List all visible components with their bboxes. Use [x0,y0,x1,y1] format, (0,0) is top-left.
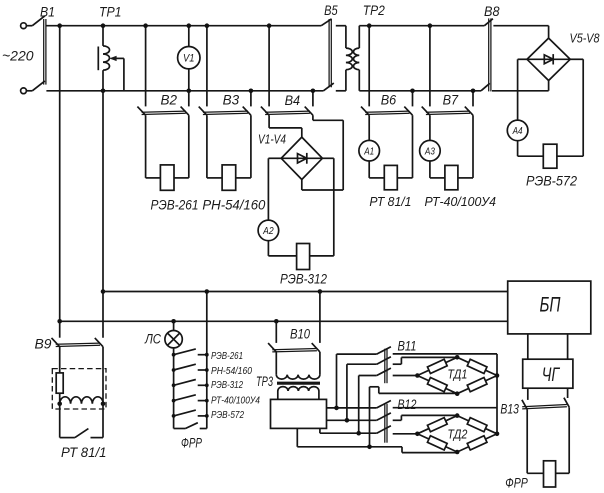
wire BP to ChG left [527,334,529,359]
lamp LS [165,331,182,348]
diode inside V1-V4 [281,157,322,159]
node RT81 coil left [57,402,62,407]
node line2 left end [57,319,62,324]
transformer TP3 core [277,382,320,384]
wire B7 left pole to A3 [429,115,431,140]
svg-text:ЛС: ЛС [144,332,161,347]
svg-text:А1: А1 [363,145,374,157]
wire A4 to coil [517,141,519,157]
switch B3 [206,26,208,107]
svg-text:А3: А3 [424,145,435,157]
wire bridge DC left to A2 [268,157,281,159]
svg-text:В7: В7 [443,93,459,108]
node B7 right lower bus [471,89,476,94]
wire line1 [103,291,508,293]
ammeter A2 [258,220,279,241]
wire lower bus left section [46,90,323,92]
node V1 top bus [187,23,192,28]
svg-text:ТР2: ТР2 [363,3,385,18]
svg-text:РТ 81/1: РТ 81/1 [369,194,411,209]
coil RT-40/100U4 (K5) [445,165,458,189]
switch B12 bar [385,404,387,443]
rectifier bridge V1-V4 [281,137,322,179]
wire w3 block to B12 feed3 [319,428,321,433]
wire FRR right rail [206,292,208,429]
dashed enclosure RT 81/1 relay [52,369,106,409]
wire coil to bridge DC right [310,255,334,257]
terminal input top [21,23,27,29]
svg-text:В6: В6 [381,93,397,108]
ammeter A4 [507,120,528,141]
wire coil to bridge DC right [557,155,583,157]
wire B8 bottom to bridge [492,90,549,92]
sensor bridge TD1 [417,357,497,393]
contact FRR-2 [174,364,196,370]
svg-text:РЭВ-572: РЭВ-572 [211,410,244,421]
switch B5 [321,19,331,26]
wire B4 right pole to bridge AC2 [312,115,314,120]
wire riser3 to B11 feed3 [358,376,360,434]
svg-text:В5: В5 [324,3,338,18]
inductor coil RT81 winding [60,397,103,404]
wire FRR left rail [173,348,175,428]
wire BP to ChG right [567,334,569,359]
switch B8 [484,19,493,26]
wire B11 fixed1 to TD right corners [393,353,497,355]
wire B10 poles to TP3 [275,352,277,375]
wire B9 right pole [102,347,104,404]
switch B11 blade2 [377,357,391,364]
node B6 left top bus [367,23,372,28]
wire A3 to coil [429,161,431,178]
ammeter A3 [420,140,441,161]
switch B1 [32,16,45,26]
svg-text:А2: А2 [262,225,273,237]
node B4 left top bus [267,23,272,28]
coil REV-261 (K1) [160,165,174,190]
svg-text:А4: А4 [512,125,523,137]
wire B12 fixed3 to TD2 left [393,433,418,435]
block ChG [523,359,573,388]
svg-text:В10: В10 [290,327,310,342]
wire riser2 to B11 feed2 [346,364,348,420]
node B10 left line2 [274,319,279,324]
wire B2 left pole [145,115,147,178]
svg-text:РН-54/160: РН-54/160 [202,198,265,213]
wire B9 left pole to resistor [59,347,61,373]
contact FRR bottom [174,428,186,430]
svg-text:В8: В8 [484,4,500,19]
wire TP1 wiper to lower bus [123,58,125,90]
svg-text:РТ-40/100У4: РТ-40/100У4 [211,396,260,407]
svg-text:РЭВ-312: РЭВ-312 [280,272,327,287]
switch B6 [368,26,370,107]
wire B3 right pole [236,177,251,179]
contact FRR-5 [174,410,196,416]
svg-text:ТД1: ТД1 [447,367,467,382]
wire B11 fixed3 to TD1 left [393,375,418,377]
wire w1 block to B12 feed1 [327,407,377,409]
contact RT81 (normally open) [59,404,61,438]
voltmeter V1 [178,47,200,69]
svg-text:В9: В9 [35,337,53,352]
wire lamp top [173,321,175,330]
wire neutral drop x103 [102,91,104,338]
wire bridge DC left to A4 [518,58,527,60]
node riser3 [356,431,361,436]
svg-text:ТР1: ТР1 [99,4,122,19]
node riser4 [367,445,372,450]
switch B2 [145,26,147,107]
svg-text:В11: В11 [398,338,417,353]
wire w2 block to B12 feed2 [327,419,377,421]
node TP1 top [101,23,106,28]
wire B12 fixed2 to TD2 top [393,419,402,421]
wire coil to B6 right pole [397,177,412,179]
node RT81 coil right [101,402,106,407]
wire w4 block to TD2 common [296,428,298,446]
wire lower bus right section [359,90,481,92]
coil RT 81/1 (K4) [384,165,397,189]
wire A1 to coil [368,161,370,178]
node B4 right lower bus [311,89,316,94]
switch B11 bar [385,349,387,384]
wire B11 fixed2 to TD1 top [393,363,402,365]
wire V1 bottom [188,69,190,91]
node B3 right lower bus [249,89,254,94]
svg-text:В2: В2 [161,93,178,108]
wire B13 left pole [526,409,528,473]
switch B12 blade1 [377,401,391,408]
wire coil to B7 right pole [458,177,473,179]
coil REV-572 (K6) [543,144,557,168]
node phase drop top bus [57,23,62,28]
svg-text:РТ 81/1: РТ 81/1 [61,445,107,460]
wiper arrow TP1 [112,57,124,59]
switch B12 blade3 [377,426,391,433]
wire ChG down left [527,388,529,400]
wire B2 right pole [174,177,189,179]
svg-text:РЭВ-312: РЭВ-312 [211,380,243,391]
svg-text:В13: В13 [500,401,519,416]
switch B10 [275,321,277,343]
wire B8 top to bridge [493,25,548,27]
node FRR right rail line1 [205,289,210,294]
svg-text:ФРР: ФРР [181,436,202,451]
svg-text:РЭВ-261: РЭВ-261 [211,351,243,362]
transformer TP2 secondary [358,26,360,48]
contact FRR-4 [174,395,196,401]
rectifier bridge V5-V8 [527,38,570,80]
contact FRR-1 [174,349,196,355]
switch B11 blade1 [377,347,391,354]
wire line2 [60,320,508,322]
coil RN-54/160 (K2) [222,165,236,190]
svg-text:В1: В1 [40,4,55,19]
wire top bus left section [46,25,321,27]
node riser1 [334,406,339,411]
switch B12 blade2 [377,413,391,420]
coil FRR (K7) [544,461,556,487]
block amplifier U1 [271,399,327,428]
resistor R1 [56,373,63,393]
node B7 left top bus [428,23,433,28]
switch B4 [268,26,270,107]
wire phase drop x59.7 [59,26,61,322]
transformer TP1 [102,26,104,46]
node B10 right line1 [318,289,323,294]
svg-text:ЧГ: ЧГ [542,365,561,386]
contact FRR-3 [174,380,196,386]
node lamp line2 [171,319,176,324]
diode inside V5-V8 [527,58,570,60]
svg-text:РЭВ-572: РЭВ-572 [526,174,577,189]
wire top bus right section [359,25,484,27]
svg-text:РТ-40/100У4: РТ-40/100У4 [425,194,497,209]
node V1 lower bus [187,89,192,94]
wire B4 left pole to bridge AC1 [268,115,270,128]
svg-text:ФРР: ФРР [505,475,528,490]
svg-text:ТД2: ТД2 [447,427,467,442]
svg-text:В4: В4 [285,93,301,108]
wire resistor to coil node [59,393,61,404]
wire A2 to coil [267,241,269,256]
coil REV-312 (K3) [297,244,310,270]
svg-text:В3: В3 [223,93,240,108]
switch B9 [59,321,61,337]
svg-text:ТР3: ТР3 [256,374,273,389]
node B6 right lower bus [410,89,415,94]
wire riser4 to TD1 common [369,387,371,447]
wire V1 top [188,26,190,47]
svg-text:~220: ~220 [2,47,34,63]
switch B11 blade3 [377,368,391,375]
block BP power supply [508,281,591,334]
svg-text:РЭВ-261: РЭВ-261 [151,198,199,213]
node neutral drop line1 [101,289,106,294]
switch B13 [522,400,527,410]
transformer TP2 primary [336,25,346,27]
svg-text:V1-V4: V1-V4 [258,133,286,147]
switch B7 [429,26,431,107]
node riser2 [345,418,350,423]
wire B13 right pole [556,472,570,474]
svg-text:V1: V1 [183,53,195,65]
svg-text:В12: В12 [398,397,417,412]
wire ChG down right [567,388,569,398]
node TP1 bottom [101,89,106,94]
transformer TP3 primary [276,375,320,380]
node B2 left top bus [143,23,148,28]
node B3 left top bus [205,23,210,28]
wire B6 left pole to A1 [368,115,370,140]
wire B12 fixed1 to right vertical [393,407,497,409]
wire B3 left pole [206,115,208,178]
svg-text:БП: БП [540,293,562,316]
wire riser1 to B11 feed1 [336,354,338,408]
svg-text:V5-V8: V5-V8 [570,31,600,45]
ammeter A1 [359,140,380,161]
svg-text:РН-54/160: РН-54/160 [211,366,252,377]
transformer TP3 secondary [278,387,319,391]
terminal input bottom [21,88,27,94]
sensor bridge TD2 [417,416,497,452]
